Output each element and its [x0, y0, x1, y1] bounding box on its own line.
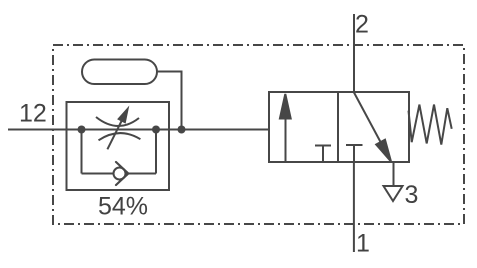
enclosure dash-dot component boundary — [53, 45, 464, 224]
svg-text:3: 3 — [405, 181, 419, 209]
valve flow path arrow (left box, 1 to 2) — [280, 94, 291, 161]
spring return — [409, 105, 452, 145]
wire bypass branch right drop — [155, 130, 157, 174]
flow control valve body (throttle assembly box) — [67, 102, 170, 190]
node junction dot left branch — [78, 126, 86, 134]
throttle restrictor lower arc — [99, 133, 141, 140]
blocked port symbol (right box, port 1) — [346, 145, 363, 162]
wire port 1 line — [353, 162, 355, 252]
svg-text:12: 12 — [19, 100, 47, 128]
svg-text:2: 2 — [355, 11, 369, 39]
wire bypass branch left drop — [81, 130, 83, 174]
throttle restrictor upper arc — [96, 117, 139, 126]
valve V1 body left position box — [269, 92, 338, 162]
exhaust symbol port 3 (open triangle) — [384, 186, 403, 201]
node junction dot reservoir branch — [178, 126, 186, 134]
wire pilot line 12 (horizontal run into valve) — [8, 129, 269, 131]
reservoir (air volume capsule) — [82, 60, 157, 85]
wire reservoir to pilot line junction — [157, 72, 182, 130]
wire port 2 line — [353, 14, 355, 92]
svg-text:54%: 54% — [98, 193, 148, 221]
valve V1 body right position box — [338, 92, 409, 162]
node junction dot right branch — [152, 126, 160, 134]
wire exhaust stub to port 3 — [393, 162, 395, 185]
throttle adjustment arrow — [107, 109, 127, 149]
check valve (ball and seat) — [114, 162, 129, 185]
wire bypass branch bottom run — [82, 173, 157, 175]
blocked port symbol (left box) — [315, 146, 331, 163]
valve flow path arrow (right box, 2 to 3) — [354, 93, 391, 162]
svg-text:1: 1 — [356, 230, 370, 258]
